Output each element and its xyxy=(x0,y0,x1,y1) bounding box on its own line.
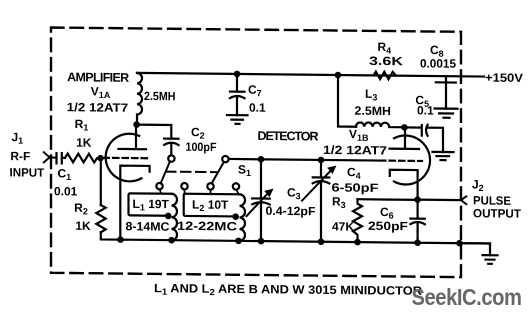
switch S1 pole 1 arm xyxy=(161,161,170,183)
inductor L2 xyxy=(240,194,245,241)
ground bus (bottom) xyxy=(121,240,491,244)
svg-text:1/2 12AT7: 1/2 12AT7 xyxy=(67,100,129,115)
node C7 top xyxy=(234,71,241,78)
switch S1 contact 3 xyxy=(207,183,213,189)
switch S1 contact 2 xyxy=(181,183,187,189)
capacitor C5 xyxy=(405,125,444,153)
switch S1 contact 1 xyxy=(156,183,162,189)
svg-text:3.6K: 3.6K xyxy=(369,54,403,68)
capacitor C3 (variable) xyxy=(247,188,274,216)
wire R2 to ground bus xyxy=(101,232,121,239)
svg-text:J2: J2 xyxy=(472,177,484,193)
V1A grid (dashed) xyxy=(104,157,150,160)
wire top bus xyxy=(137,73,484,77)
node C3 bottom bus xyxy=(258,238,265,245)
resistor R1 xyxy=(65,154,101,163)
svg-text:V1A: V1A xyxy=(91,84,111,100)
node C4 bottom bus xyxy=(318,238,325,245)
svg-text:R2: R2 xyxy=(74,201,88,217)
svg-text:R1: R1 xyxy=(75,117,89,133)
svg-text:100pF: 100pF xyxy=(186,140,217,154)
capacitor C7 xyxy=(230,74,245,115)
node R3 bottom xyxy=(354,239,361,246)
svg-text:DETECTOR: DETECTOR xyxy=(258,129,319,144)
svg-text:V1B: V1B xyxy=(349,127,369,143)
svg-text:47K: 47K xyxy=(332,219,354,233)
ground (C7) xyxy=(227,115,248,124)
wire R2 branch xyxy=(100,158,102,205)
wire pole2 common to grid line xyxy=(229,159,380,161)
V1B grid (dashed) xyxy=(380,159,422,162)
node L1 tap xyxy=(165,213,172,220)
V1B plate xyxy=(390,131,420,149)
node L1 bottom xyxy=(168,237,175,244)
node R4/L3 junction xyxy=(335,72,342,79)
svg-text:L3: L3 xyxy=(365,87,377,103)
svg-text:0.4-12pF: 0.4-12pF xyxy=(266,204,316,219)
svg-text:L1 19T: L1 19T xyxy=(133,197,170,213)
coil L2 box xyxy=(184,194,240,217)
V1A cathode xyxy=(120,166,149,240)
svg-text:0.0015: 0.0015 xyxy=(420,56,456,70)
svg-text:1K: 1K xyxy=(76,136,92,150)
V1B cathode xyxy=(390,170,418,200)
resistor R2 xyxy=(96,205,105,232)
capacitor C2 xyxy=(164,139,178,156)
svg-text:2.5MH: 2.5MH xyxy=(144,89,176,103)
contact stub 3 xyxy=(210,190,212,194)
connector J1 xyxy=(44,152,56,162)
svg-text:S1: S1 xyxy=(238,162,251,178)
node detector grid mid xyxy=(318,157,325,164)
svg-text:INPUT: INPUT xyxy=(10,165,45,179)
capacitor C4 (variable) xyxy=(302,165,337,201)
wire J2 output xyxy=(418,199,460,202)
svg-text:1K: 1K xyxy=(75,219,91,233)
ground (C5) xyxy=(433,152,454,160)
triode V1B envelope xyxy=(394,135,430,184)
contact stub 1 xyxy=(160,189,161,193)
node L2 tap xyxy=(232,213,239,220)
ground (C8) xyxy=(435,109,458,118)
svg-text:C1: C1 xyxy=(58,166,72,182)
node bus at box edge xyxy=(456,240,463,247)
switch S1 contact 4 xyxy=(233,183,239,189)
switch S1 gang link (dashed) xyxy=(166,171,218,174)
svg-text:L2 10T: L2 10T xyxy=(192,197,229,213)
switch S1 pole 1 common xyxy=(168,155,174,161)
capacitor C8 xyxy=(436,76,456,109)
ground (main) xyxy=(483,255,498,264)
svg-text:SeekIC.com: SeekIC.com xyxy=(412,284,522,310)
node grid-A xyxy=(97,155,103,161)
resistor R3 top wire xyxy=(358,198,418,201)
svg-text:R3: R3 xyxy=(332,194,346,210)
resistor R4 xyxy=(374,72,397,80)
svg-text:12-22MC: 12-22MC xyxy=(177,219,237,234)
svg-text:0.1: 0.1 xyxy=(417,103,434,117)
node plate V1B xyxy=(401,124,408,131)
contact stub 2 xyxy=(184,189,186,193)
wire bus to ground xyxy=(460,243,491,255)
node cathode V1A xyxy=(117,236,124,243)
node plate V1A xyxy=(133,121,140,128)
coil L1 box xyxy=(129,193,172,215)
switch S1 pole 2 common xyxy=(222,156,228,162)
svg-text:0.01: 0.01 xyxy=(54,184,78,198)
svg-text:0.1: 0.1 xyxy=(249,101,266,115)
svg-text:C7: C7 xyxy=(248,83,262,99)
node L2 bottom xyxy=(235,238,242,245)
svg-text:250pF: 250pF xyxy=(368,219,408,233)
svg-text:C2: C2 xyxy=(191,125,205,141)
wire L3 branch xyxy=(338,75,356,127)
svg-text:C3: C3 xyxy=(287,185,301,201)
triode V1A envelope xyxy=(106,133,142,181)
svg-text:1/2 12AT7: 1/2 12AT7 xyxy=(323,143,387,158)
svg-text:C4: C4 xyxy=(347,165,361,181)
wire C4 branch xyxy=(320,160,322,242)
svg-text:AMPLIFIER: AMPLIFIER xyxy=(67,70,129,85)
svg-text:L1 AND L2 ARE B AND W 3015 MIN: L1 AND L2 ARE B AND W 3015 MINIDUCTOR xyxy=(154,281,422,299)
connector J2 xyxy=(461,196,466,204)
wire C3 branch xyxy=(260,159,262,241)
svg-text:OUTPUT: OUTPUT xyxy=(473,206,522,221)
inductor L3 xyxy=(356,122,405,127)
capacitor C6 xyxy=(410,200,424,243)
svg-text:6-50pF: 6-50pF xyxy=(332,180,379,194)
inductor 2.5MH (plate choke) xyxy=(137,73,142,125)
resistor R3 xyxy=(353,199,362,242)
node C6 top / J2 xyxy=(414,196,421,203)
switch S1 pole 2 arm xyxy=(212,162,224,184)
svg-text:J1: J1 xyxy=(12,130,24,146)
dashed enclosure box xyxy=(51,28,461,278)
V1A plate xyxy=(119,128,147,149)
svg-text:8-14MC: 8-14MC xyxy=(126,219,170,233)
node detector grid left xyxy=(258,156,265,163)
svg-text:R-F: R-F xyxy=(10,149,30,163)
wire plate node to C2 xyxy=(137,125,172,139)
node C6 bottom xyxy=(414,239,421,246)
contact stub 4 xyxy=(236,190,238,195)
svg-text:2.5MH: 2.5MH xyxy=(354,104,391,118)
svg-text:+150V: +150V xyxy=(485,71,523,85)
capacitor C1 xyxy=(57,153,66,163)
inductor L1 xyxy=(172,194,178,241)
